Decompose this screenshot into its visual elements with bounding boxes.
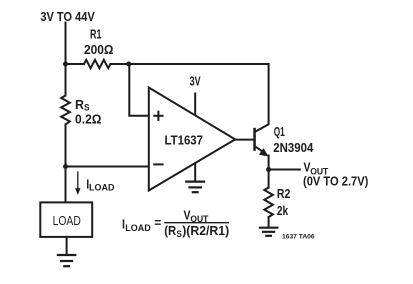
svg-text:S: S — [84, 103, 90, 113]
svg-text:=: = — [154, 216, 161, 230]
svg-text:R: R — [75, 98, 84, 112]
svg-text:2N3904: 2N3904 — [273, 141, 313, 155]
svg-text:LOAD: LOAD — [125, 223, 151, 233]
svg-text:S: S — [176, 229, 182, 239]
svg-text:2k: 2k — [277, 204, 288, 218]
svg-text:)(R2/R1): )(R2/R1) — [182, 224, 229, 238]
svg-text:1637 TA06: 1637 TA06 — [282, 234, 315, 241]
svg-text:3V: 3V — [190, 75, 201, 89]
svg-text:LOAD: LOAD — [89, 182, 115, 192]
svg-text:R1: R1 — [90, 28, 102, 42]
svg-text:LT1637: LT1637 — [165, 133, 204, 147]
svg-text:R2: R2 — [277, 187, 290, 201]
svg-text:3V TO 44V: 3V TO 44V — [40, 10, 95, 24]
svg-text:200Ω: 200Ω — [84, 43, 114, 57]
svg-text:(0V TO 2.7V): (0V TO 2.7V) — [303, 175, 368, 189]
svg-text:(R: (R — [164, 224, 176, 238]
svg-text:0.2Ω: 0.2Ω — [75, 113, 102, 127]
svg-text:Q1: Q1 — [274, 125, 285, 139]
svg-text:LOAD: LOAD — [53, 213, 81, 228]
